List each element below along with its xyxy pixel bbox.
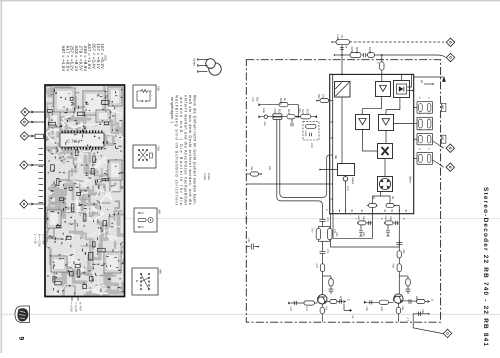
transistor TS70 (left) — [317, 295, 327, 304]
svg-text:B = +2,5V: B = +2,5V — [38, 234, 42, 247]
IC block outline U1 — [330, 74, 414, 213]
connector diamond B1 — [443, 329, 451, 337]
right collector chain — [403, 299, 434, 304]
svg-text:C60: C60 — [362, 216, 365, 221]
transistor case pinout — [193, 58, 222, 75]
schematic dash-dot border — [246, 60, 440, 323]
connector diamond L1 — [21, 108, 46, 116]
bottom right aux wire — [413, 309, 429, 322]
svg-text:C20: C20 — [273, 109, 277, 115]
svg-text:eingetragen. ): eingetragen. ) — [170, 97, 175, 124]
svg-text:C252: C252 — [368, 47, 372, 54]
svg-text:5,6k: 5,6k — [262, 108, 265, 113]
phase detector block (hatched) — [335, 82, 351, 98]
stub to dummy network — [291, 119, 293, 127]
svg-text:C70: C70 — [326, 217, 329, 222]
exit wire to connector — [413, 322, 443, 334]
svg-text:1 = +1V: 1 = +1V — [34, 234, 38, 244]
svg-text:R61: R61 — [384, 216, 387, 221]
svg-text:C71: C71 — [326, 249, 329, 254]
IC pin stub left mid — [319, 169, 337, 171]
svg-text:1: 1 — [431, 299, 435, 301]
amplifier block A3 — [379, 115, 394, 131]
svg-text:38kHz: 38kHz — [409, 176, 412, 184]
voltage measurement table above PCB — [61, 44, 105, 72]
legend text block (1=+1V etc) — [34, 234, 46, 247]
voltage notes below PCB — [70, 297, 83, 313]
svg-text:B11: B11 — [441, 136, 444, 141]
label 25mV — [245, 215, 248, 223]
svg-text:R73: R73 — [305, 307, 308, 312]
right channel pin filter — [384, 216, 399, 237]
svg-text:S20: S20 — [263, 122, 266, 127]
19kHz feed chain (top) — [334, 47, 446, 58]
svg-text:R21: R21 — [287, 109, 291, 115]
svg-text:R23: R23 — [250, 166, 253, 171]
oscillator divider block — [338, 164, 355, 182]
IC output resistors — [367, 192, 400, 214]
right channel resistor chain — [392, 240, 406, 295]
left channel divider resistors — [311, 226, 337, 252]
connector diamond L2 — [20, 118, 45, 126]
svg-text:C85: C85 — [421, 309, 424, 314]
right base chain — [364, 300, 394, 311]
page title (rotated) — [482, 187, 489, 346]
de-emphasis loop wires — [331, 214, 400, 247]
fold line lower — [0, 313, 500, 316]
svg-text:4,7k: 4,7k — [346, 186, 349, 191]
svg-text:8 mW: 8 mW — [207, 173, 210, 180]
dashed wire to pilot lamp connector — [350, 41, 445, 43]
left base chain — [288, 301, 317, 312]
IC top-right stub — [414, 77, 446, 85]
svg-text:S8B: S8B — [159, 269, 162, 274]
svg-text:≈ +1,5V: ≈ +1,5V — [70, 302, 74, 312]
routing bus to de-emphasis — [277, 120, 330, 217]
resistor stub on left border — [246, 166, 262, 176]
svg-text:R150: R150 — [304, 131, 307, 137]
svg-text:R70: R70 — [311, 228, 314, 233]
svg-text:R75: R75 — [339, 296, 342, 301]
input arrow row 1 — [259, 98, 299, 117]
svg-text:C23: C23 — [310, 143, 313, 148]
amplifier block A2 — [356, 115, 370, 130]
svg-text:C250: C250 — [350, 47, 354, 54]
svg-text:3B8: 3B8 — [441, 105, 444, 110]
svg-text:S6B: S6B — [158, 209, 161, 214]
PCB layout photograph — [45, 85, 125, 297]
left channel coupling cap — [319, 217, 329, 226]
PCB pin number labels — [39, 148, 44, 209]
detail inset box S8B — [132, 268, 162, 295]
net label box 3B8 — [441, 104, 446, 112]
svg-text:A17 = +0,6V: A17 = +0,6V — [65, 46, 70, 72]
junction dots top feed — [298, 54, 383, 118]
detail inset box S6B — [134, 208, 161, 232]
svg-text:7V: 7V — [340, 35, 344, 39]
svg-text:La50: La50 — [336, 35, 340, 42]
svg-text:Tonabn.: Tonabn. — [193, 58, 196, 67]
svg-text:C60: C60 — [335, 232, 338, 237]
svg-text:9: 9 — [18, 337, 25, 341]
svg-text:279 = +9,5V: 279 = +9,5V — [78, 46, 83, 72]
svg-text:207 = +3,4V: 207 = +3,4V — [91, 44, 96, 70]
filter network F4 — [414, 148, 433, 164]
bottom labels — [351, 316, 410, 322]
detail inset box S4B — [133, 145, 160, 168]
svg-text:2: 2 — [347, 299, 351, 301]
svg-text:R82: R82 — [392, 264, 395, 269]
page left edge line — [1, 0, 2, 353]
IC pin caption — [104, 55, 108, 61]
left channel cap 2 — [320, 249, 330, 264]
IC internal wires — [341, 74, 414, 214]
svg-text:A57 = +1,5V: A57 = +1,5V — [87, 44, 92, 70]
right bias cluster — [399, 276, 410, 294]
monostable block M — [394, 81, 410, 98]
left bias cluster — [323, 276, 334, 294]
filter network F2 — [414, 113, 433, 130]
svg-text:157 = +9,1V: 157 = +9,1V — [96, 44, 101, 70]
connector diamond L4 — [20, 161, 46, 169]
resistor on right feed — [376, 55, 384, 74]
net name along IC edge — [409, 176, 412, 184]
svg-text:A93 = +8,9V: A93 = +8,9V — [83, 46, 88, 72]
left channel pin filter — [357, 216, 373, 237]
long horizontal wire y184 — [246, 183, 329, 185]
fold line upper — [0, 217, 500, 220]
right emitter resistor — [396, 303, 404, 322]
svg-text:0,3mV: 0,3mV — [245, 215, 248, 223]
German note paragraph — [170, 95, 198, 206]
svg-text:C61: C61 — [389, 216, 392, 221]
svg-text:0,47: 0,47 — [251, 97, 254, 102]
svg-text:R22: R22 — [306, 109, 310, 115]
svg-text:257 = +6,2V: 257 = +6,2V — [70, 46, 75, 72]
svg-text:R26: R26 — [317, 94, 320, 99]
misc small labels — [251, 94, 418, 301]
left channel resistor 2 — [315, 264, 325, 295]
connector diamond T1 — [446, 38, 454, 46]
transistor TS80 (right) — [393, 294, 403, 303]
left emitter resistor — [320, 304, 327, 322]
page top edge line — [0, 0, 500, 1]
wires to side connectors — [433, 141, 444, 167]
svg-text:R201: R201 — [279, 98, 283, 105]
svg-text:R83: R83 — [380, 307, 383, 312]
svg-text:Stereo-Decoder 22 RB 740 - 22: Stereo-Decoder 22 RB 740 - 22 RB 841 — [482, 187, 489, 346]
small level label — [203, 173, 210, 180]
filter network F1 — [414, 97, 433, 113]
IC pin numbers — [331, 100, 407, 212]
svg-text:5 mW: 5 mW — [203, 173, 206, 180]
detail inset box S2B — [133, 85, 160, 108]
svg-text:≈ +1,3V: ≈ +1,3V — [74, 302, 78, 312]
left collector chain — [327, 299, 352, 312]
input arrow row 2 with RC chain — [259, 109, 318, 127]
amplifier block A1 — [376, 82, 391, 97]
dummy network (dashed box) — [303, 122, 319, 140]
svg-text:R251: R251 — [355, 47, 359, 54]
multiplier block X — [378, 144, 393, 159]
svg-text:⊥ 1: ⊥ 1 — [407, 317, 410, 322]
svg-text:R20: R20 — [278, 109, 282, 115]
net label box B11 — [441, 135, 446, 143]
Philips logo — [15, 306, 30, 323]
connector diamond R2 — [446, 163, 454, 171]
connector diamond L5 — [20, 200, 46, 208]
svg-text:S4B: S4B — [157, 146, 160, 151]
lamp resistor chain (top) — [331, 35, 349, 45]
cap stub on left border low — [246, 238, 259, 250]
svg-text:C22: C22 — [298, 108, 301, 113]
svg-text:A87 = +4,5V: A87 = +4,5V — [61, 46, 66, 72]
connector diamond L3 — [20, 132, 45, 140]
svg-text:R25: R25 — [256, 97, 259, 102]
svg-text:A: +5V: A: +5V — [79, 302, 83, 311]
svg-text:C82: C82 — [365, 307, 368, 312]
filter network F3 — [414, 129, 433, 145]
connector diamond R1 — [446, 144, 454, 152]
connector diamond T2 — [446, 53, 454, 61]
svg-text:R74: R74 — [325, 306, 328, 311]
page number 9 — [18, 337, 25, 341]
svg-text:19kHz: 19kHz — [351, 177, 354, 185]
svg-text:S2B: S2B — [157, 86, 160, 91]
svg-text:R72: R72 — [315, 264, 318, 269]
svg-text:C61: C61 — [362, 232, 365, 237]
svg-text:C72: C72 — [289, 307, 292, 312]
svg-text:R85: R85 — [415, 296, 418, 301]
svg-text:IC50: IC50 — [104, 55, 108, 61]
demodulator switch block — [378, 177, 393, 192]
svg-text:R84: R84 — [401, 306, 404, 311]
IC pin stub with resistor (left) — [316, 98, 330, 102]
cap on vertical feed — [340, 45, 347, 75]
svg-text:C80: C80 — [402, 249, 405, 254]
IC left inner bus — [332, 74, 334, 213]
svg-text:C24: C24 — [247, 238, 250, 243]
svg-text:A03 = +8,1V: A03 = +8,1V — [74, 46, 79, 72]
